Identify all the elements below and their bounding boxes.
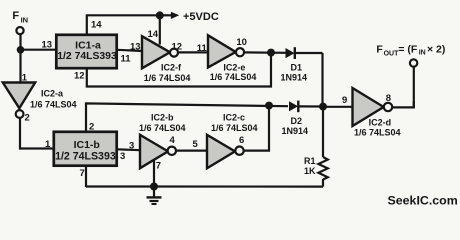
- svg-text:1/6 74LS04: 1/6 74LS04: [354, 128, 401, 138]
- node FOUT terminal: [410, 59, 417, 66]
- svg-text:F: F: [12, 10, 19, 22]
- wire R1 to ground rail: [322, 179, 324, 187]
- svg-text:1N914: 1N914: [282, 126, 309, 136]
- svg-text:IC1-a: IC1-a: [75, 40, 101, 52]
- wire D2 to OR node: [298, 105, 322, 107]
- svg-text:9: 9: [342, 95, 347, 106]
- svg-text:3: 3: [129, 141, 134, 152]
- junction reset B: [265, 102, 273, 110]
- ground rail: [86, 185, 323, 187]
- svg-text:13: 13: [130, 41, 141, 52]
- wire FIN to IC1-a pin 13: [21, 49, 57, 51]
- junction reset A: [267, 49, 275, 57]
- svg-text:SeekIC.com: SeekIC.com: [388, 194, 458, 208]
- svg-text:IN: IN: [419, 50, 426, 57]
- svg-text:5: 5: [193, 139, 199, 150]
- svg-text:11: 11: [197, 43, 208, 54]
- wire OR node to IC2-d pin 9: [323, 106, 353, 108]
- svg-text:1N914: 1N914: [281, 72, 308, 82]
- counter IC1-b: [54, 132, 117, 166]
- junction VCC: [156, 11, 164, 19]
- svg-text:IC1-b: IC1-b: [74, 139, 100, 151]
- svg-text:14: 14: [148, 29, 159, 40]
- svg-text:7: 7: [156, 161, 161, 172]
- wire D1 to corner: [295, 52, 323, 54]
- svg-text:2: 2: [25, 112, 30, 123]
- svg-text:+5VDC: +5VDC: [183, 11, 219, 23]
- svg-text:IC2-a: IC2-a: [41, 89, 64, 99]
- wire IC2-c out up to reset B: [244, 106, 269, 151]
- svg-text:1: 1: [45, 139, 51, 150]
- svg-text:1K: 1K: [304, 166, 316, 176]
- junction ground: [150, 183, 158, 191]
- svg-text:12: 12: [74, 71, 85, 82]
- junction OR node: [319, 103, 327, 111]
- svg-text:IC2-d: IC2-d: [369, 117, 392, 127]
- svg-text:D1: D1: [291, 62, 303, 72]
- svg-text:D2: D2: [291, 116, 303, 126]
- svg-text:1/2 74LS393: 1/2 74LS393: [57, 51, 117, 62]
- wire VCC rail: [87, 15, 160, 34]
- wire IC2-d out to FOUT: [392, 101, 414, 107]
- svg-text:1/6 74LS04: 1/6 74LS04: [211, 123, 258, 133]
- svg-text:F: F: [376, 44, 383, 56]
- +5VDC arrow: [160, 14, 172, 16]
- wire reset feedback to IC1-a pin 12: [87, 53, 271, 87]
- wire IC2-e out to D1: [244, 51, 286, 54]
- inverter IC2-c: [207, 135, 244, 169]
- svg-text:OUT: OUT: [384, 51, 400, 58]
- svg-text:IC2-c: IC2-c: [223, 113, 245, 123]
- svg-text:1/6 74LS04: 1/6 74LS04: [144, 73, 191, 83]
- wire OR node down to R1: [322, 107, 324, 157]
- wire IC1-a pin 11 to IC2-f pin 13: [117, 50, 143, 51]
- wire VCC to IC2-f pin 14: [159, 15, 161, 44]
- svg-text:IC2-b: IC2-b: [151, 113, 174, 123]
- wire reset B line to IC1-b pin 2: [86, 103, 288, 131]
- svg-text:1/2 74LS393: 1/2 74LS393: [55, 150, 116, 162]
- diode D2: [289, 101, 298, 113]
- wire IC2-b pin 7 to rail: [153, 161, 155, 188]
- svg-text:1/6 74LS04: 1/6 74LS04: [210, 72, 257, 82]
- svg-text:10: 10: [236, 37, 247, 48]
- svg-text:R1: R1: [304, 156, 316, 166]
- svg-text:= (F: = (F: [398, 43, 418, 55]
- wire IC1-b pin 7 to rail: [85, 167, 87, 187]
- ground: [147, 187, 162, 205]
- junction FIN: [17, 46, 25, 54]
- resistor R1: [318, 157, 327, 179]
- wire IC2-f to IC2-e: [178, 51, 208, 53]
- wire down to OR node: [321, 53, 323, 107]
- node FIN terminal: [16, 27, 23, 34]
- svg-text:12: 12: [172, 41, 183, 52]
- wire IC2-b to IC2-c: [176, 150, 207, 152]
- inverter IC2-e: [208, 35, 244, 67]
- svg-text:8: 8: [386, 93, 391, 104]
- counter IC1-a: [56, 35, 117, 68]
- svg-text:IC2-f: IC2-f: [161, 62, 182, 72]
- svg-text:1/6 74LS04: 1/6 74LS04: [139, 123, 186, 133]
- svg-text:11: 11: [121, 54, 132, 65]
- svg-text:14: 14: [91, 19, 102, 30]
- wire FIN vertical: [19, 34, 21, 82]
- svg-text:7: 7: [80, 168, 85, 179]
- svg-text:1/6 74LS04: 1/6 74LS04: [30, 100, 77, 110]
- svg-text:6: 6: [239, 135, 244, 146]
- svg-text:× 2): × 2): [427, 44, 445, 56]
- svg-text:4: 4: [170, 135, 176, 146]
- wire FOUT vertical: [413, 67, 415, 108]
- inverter IC2-a: [3, 83, 35, 118]
- inverter IC2-b: [140, 135, 176, 168]
- diode D1: [286, 47, 295, 59]
- wire IC1-b pin 3 to IC2-b: [117, 148, 141, 151]
- svg-text:3: 3: [120, 151, 125, 162]
- svg-text:13: 13: [42, 40, 53, 51]
- inverter IC2-d: [353, 88, 393, 126]
- svg-text:IN: IN: [21, 16, 29, 25]
- wire IC2-a out to IC1-b pin 1: [20, 118, 53, 149]
- inverter IC2-f: [142, 36, 178, 68]
